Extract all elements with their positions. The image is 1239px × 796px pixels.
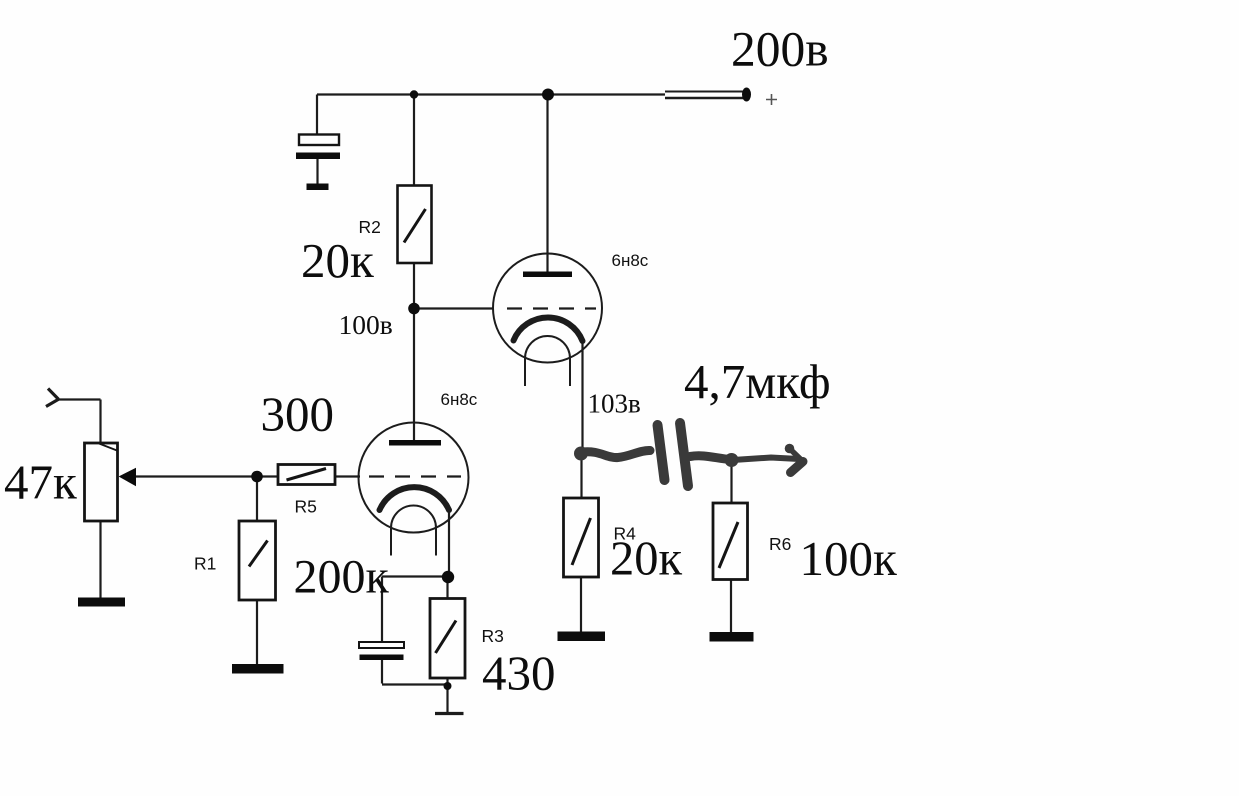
svg-text:R3: R3 <box>482 626 504 646</box>
svg-text:R4: R4 <box>614 524 637 544</box>
svg-text:6н8с: 6н8с <box>441 390 478 409</box>
svg-text:430: 430 <box>482 646 556 701</box>
svg-text:100в: 100в <box>339 309 393 340</box>
svg-text:R5: R5 <box>295 497 317 517</box>
svg-text:R1: R1 <box>194 554 216 574</box>
svg-text:300: 300 <box>261 387 335 442</box>
svg-text:103в: 103в <box>588 388 641 418</box>
svg-text:200к: 200к <box>294 551 390 604</box>
svg-text:200в: 200в <box>731 21 829 76</box>
svg-text:6н8с: 6н8с <box>612 251 649 270</box>
svg-text:47к: 47к <box>4 455 77 510</box>
svg-text:4,7мкф: 4,7мкф <box>684 354 831 409</box>
svg-text:R2: R2 <box>359 217 381 237</box>
svg-text:100к: 100к <box>800 531 898 586</box>
svg-text:R6: R6 <box>769 534 791 554</box>
svg-text:20к: 20к <box>301 233 374 288</box>
